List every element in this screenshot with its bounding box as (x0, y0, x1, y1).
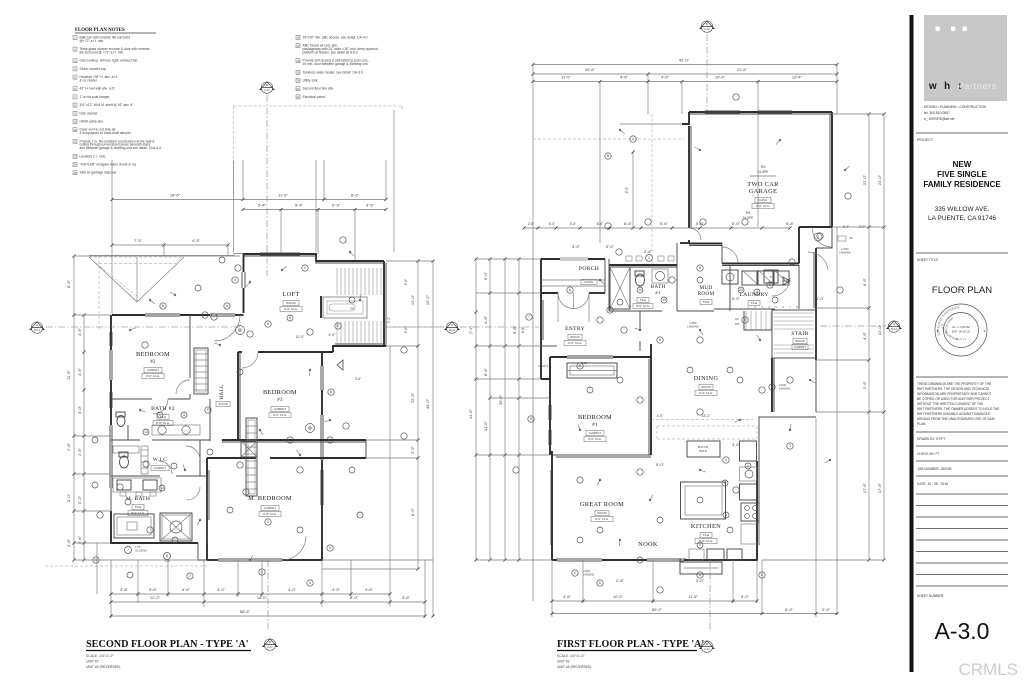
svg-text:7: 7 (189, 574, 191, 578)
svg-text:9'-0" CLG.: 9'-0" CLG. (588, 437, 602, 441)
garage top wall window bands (705, 111, 792, 113)
elevation marker A/W-12 left side (30, 322, 444, 333)
svg-text:(7'-4"): (7'-4") (469, 326, 473, 334)
garage door arc (689, 228, 828, 296)
svg-text:SCALE: 1/4"=1'-0": SCALE: 1/4"=1'-0" (557, 654, 585, 658)
svg-text:Second floor line abv.: Second floor line abv. (303, 87, 335, 91)
svg-text:4: 4 (747, 464, 749, 468)
svg-text:11'-6": 11'-6" (66, 369, 71, 379)
svg-text:BEDROOM: BEDROOM (263, 389, 297, 396)
first floor bottom extension lines (552, 227, 837, 632)
svg-text:WITHOUT THE WRITTEN CONSENT OF: WITHOUT THE WRITTEN CONSENT OF THE (917, 402, 983, 406)
svg-text:7: 7 (127, 548, 129, 552)
svg-text:SCALE: 1/4"=1'-0": SCALE: 1/4"=1'-0" (86, 654, 114, 658)
project label (917, 138, 933, 142)
svg-text:4'-0": 4'-0" (741, 594, 750, 599)
room label BATH1 (633, 284, 665, 309)
room label DINING (694, 375, 719, 396)
circled keynote markers second floor (93, 237, 519, 586)
extra circled markers first floor (577, 277, 778, 563)
svg-text:3/4" x12" W.M.M. shelf @ 62" a: 3/4" x12" W.M.M. shelf @ 62" abv. ff. (80, 103, 134, 107)
svg-text:8'-0" CLG.: 8'-0" CLG. (636, 304, 650, 308)
svg-text:5'-6": 5'-6" (149, 587, 158, 592)
svg-text:PORCH: PORCH (579, 266, 599, 272)
svg-text:4'-6": 4'-6" (77, 367, 82, 376)
bath1 shower (610, 267, 630, 309)
room label LAUNDRY (739, 292, 768, 306)
bedroom3 bottom wall (222, 440, 366, 442)
svg-text:8'-6": 8'-6" (862, 277, 867, 286)
svg-text:22'-0": 22'-0" (862, 174, 867, 185)
svg-text:5'-0": 5'-0" (606, 244, 615, 249)
svg-text:8'-6": 8'-6" (624, 221, 633, 226)
svg-text:4'-6": 4'-6" (77, 327, 82, 336)
svg-text:1" ø rod coat hanger.: 1" ø rod coat hanger. (80, 95, 111, 99)
svg-text:9'-5": 9'-5" (625, 186, 629, 194)
ceiling fan symbol bed3 (306, 424, 315, 433)
svg-text:A-12: A-12 (264, 89, 270, 92)
second floor bottom dimension row 2 (109, 595, 426, 604)
toilet bath2 (116, 412, 125, 427)
extra window bands second floor (110, 253, 323, 505)
svg-text:No. C 045180: No. C 045180 (952, 325, 970, 329)
toilet wic area (119, 452, 129, 468)
crmls watermark (958, 660, 1018, 679)
svg-text:8'-6": 8'-6" (597, 222, 603, 226)
svg-text:18'-6": 18'-6" (170, 193, 181, 198)
svg-text:44'-0": 44'-0" (425, 398, 430, 409)
roof outline above loft (dashed) (234, 106, 403, 252)
svg-text:335 WILLOW AVE.: 335 WILLOW AVE. (935, 206, 990, 213)
svg-text:2: 2 (267, 520, 269, 524)
svg-text:TILE: TILE (751, 301, 757, 305)
svg-text:CARPET: CARPET (589, 431, 601, 435)
second floor top dimension row 1 (110, 160, 387, 201)
room label GARAGE (747, 181, 779, 209)
svg-text:FAMILY RESIDENCE: FAMILY RESIDENCE (923, 180, 1001, 189)
svg-text:HDMI cable abv.: HDMI cable abv. (80, 120, 104, 124)
svg-text:CONC.: CONC. (758, 198, 768, 202)
svg-text:6'-0": 6'-0" (483, 271, 488, 280)
svg-text:11'-0": 11'-0" (561, 75, 571, 80)
svg-text:A: A (893, 322, 895, 326)
door arcs left plan (159, 315, 306, 560)
dining area walls (541, 311, 757, 439)
svg-text:4'-0": 4'-0" (217, 587, 226, 592)
svg-text:58'-6": 58'-6" (240, 609, 251, 614)
svg-text:4: 4 (234, 278, 236, 282)
svg-text:14: 14 (638, 288, 642, 292)
svg-text:CARPET: CARPET (274, 407, 286, 411)
svg-text:4"ø equipped w/ back-draft dam: 4"ø equipped w/ back-draft damper. (80, 131, 132, 135)
job number row (916, 467, 1008, 476)
garage left dashed line (533, 114, 684, 263)
svg-text:DRAWN BY: ET/FT: DRAWN BY: ET/FT (917, 437, 945, 441)
svg-text:UP: UP (735, 317, 739, 321)
svg-text:42" H. low wall abv. a.f.f.: 42" H. low wall abv. a.f.f. (80, 87, 116, 91)
svg-text:4: 4 (724, 481, 726, 485)
svg-text:★: ★ (936, 329, 939, 333)
bath1 mudroom laundry walls (609, 265, 799, 311)
svg-text:4'-6": 4'-6" (620, 75, 629, 80)
garage bottom wall and mudroom notch (689, 227, 832, 266)
svg-text:17'-6": 17'-6" (862, 482, 867, 493)
svg-text:LONG: LONG (689, 321, 696, 325)
svg-text:LONG: LONG (779, 383, 786, 387)
garage slope arrows (743, 165, 776, 220)
master bath tub (114, 514, 154, 538)
svg-text:10'-0": 10'-0" (613, 594, 624, 599)
engineer stamp (0, 0, 987, 356)
svg-text:"KHOLER" elongate water closet: "KHOLER" elongate water closet or eq. (80, 163, 137, 167)
bedroom3 top wall (238, 351, 333, 353)
logo subtext (924, 105, 987, 121)
svg-text:platform at firebox, see detai: platform at firebox, see detail @ A-8.0 (303, 51, 358, 55)
svg-text:W-12: W-12 (891, 328, 898, 331)
svg-text:UNIT #4 (REVERSED): UNIT #4 (REVERSED) (86, 665, 120, 669)
svg-text:9: 9 (699, 543, 701, 547)
svg-text:6'-8": 6'-8" (521, 327, 525, 333)
svg-text:UNIT #4 (REVERSED): UNIT #4 (REVERSED) (557, 665, 591, 669)
svg-text:6: 6 (530, 417, 532, 421)
svg-text:3'-0": 3'-0" (572, 244, 581, 249)
svg-text:1: 1 (648, 256, 650, 260)
svg-text:WHT PARTNERS. THE DESIGN AND T: WHT PARTNERS. THE DESIGN AND TECHNICAL (917, 387, 990, 391)
svg-text:and between garage & dwelling: and between garage & dwelling unit see d… (80, 146, 162, 150)
svg-text:ARISING FROM THE UNAUTHORIZED: ARISING FROM THE UNAUTHORIZED USE OF SAI… (917, 417, 996, 421)
second floor right dimension columns (322, 259, 435, 617)
svg-text:BE COPIED OR USED FOR ANOTHER: BE COPIED OR USED FOR ANOTHER PROJECT (917, 397, 989, 401)
room label BATH2 (151, 406, 175, 426)
svg-text:3'-0": 3'-0" (77, 405, 82, 414)
svg-text:5: 5 (329, 546, 331, 550)
svg-text:17'-6": 17'-6" (877, 482, 882, 493)
room label STAIR (791, 331, 808, 350)
svg-text:A: A (36, 323, 38, 327)
svg-text:50'-0": 50'-0" (652, 607, 663, 612)
nook bay window seat (680, 562, 722, 574)
svg-text:5'-4": 5'-4" (258, 203, 267, 208)
drawn by row (916, 437, 1008, 446)
first floor right dimension columns (762, 112, 886, 561)
date row (917, 482, 948, 486)
first floor bottom wall (552, 545, 757, 561)
dining east wall (772, 358, 774, 412)
svg-text:9'-0" CLG.: 9'-0" CLG. (146, 374, 160, 378)
svg-text:4'-0": 4'-0" (332, 587, 341, 592)
svg-text:EXP. 06-30-20: EXP. 06-30-20 (952, 330, 971, 334)
floor plan notes column 2 (296, 36, 378, 100)
svg-text:8'-0": 8'-0" (785, 607, 794, 612)
svg-text:C I V I L: C I V I L (956, 337, 967, 341)
sheet number (935, 618, 990, 644)
svg-text:TILE: TILE (640, 298, 646, 302)
svg-text:2'-6": 2'-6" (77, 447, 82, 456)
svg-text:8'-0" CLG.: 8'-0" CLG. (131, 511, 145, 515)
kitchen counters (681, 441, 760, 560)
svg-text:TILE: TILE (703, 533, 709, 537)
sink bath1 (652, 269, 668, 283)
room label HALL (216, 384, 230, 406)
room label MUDROOM (698, 285, 715, 305)
svg-text:ENTRY: ENTRY (565, 326, 585, 332)
svg-text:LA PUENTE, CA 91746: LA PUENTE, CA 91746 (928, 215, 996, 222)
section marker top of first floor plan (700, 21, 714, 114)
project name (923, 160, 1001, 189)
svg-text:COAT'S: COAT'S (538, 364, 548, 368)
svg-text:W-12: W-12 (449, 329, 456, 332)
svg-text:2'-0": 2'-0" (822, 607, 831, 612)
svg-text:WHT PARTNERS. THE OWNER AGREES: WHT PARTNERS. THE OWNER AGREES TO HOLD T… (917, 407, 999, 411)
svg-text:5'-0": 5'-0" (77, 495, 82, 504)
closet bed1 (538, 361, 617, 378)
svg-text:2'-6": 2'-6" (66, 442, 71, 451)
svg-text:LOFT: LOFT (282, 291, 299, 298)
svg-text:PROJECT:: PROJECT: (917, 138, 933, 142)
svg-text:6'-0": 6'-0" (549, 222, 555, 226)
elevation marker A right of second floor (390, 322, 539, 333)
sheet title label (917, 258, 939, 262)
svg-text:LANDING: LANDING (583, 573, 595, 577)
svg-text:5%: 5% (761, 165, 766, 169)
svg-text:3'-0": 3'-0" (816, 296, 825, 301)
svg-text:8'-0": 8'-0" (410, 507, 415, 516)
svg-text:5'-6": 5'-6" (732, 221, 741, 226)
second floor top dimension row 3 (110, 199, 229, 314)
svg-text:4'-6": 4'-6" (365, 587, 374, 592)
ceiling fan symbol bed2 (236, 326, 245, 335)
room label BEDROOM 2 (136, 351, 170, 379)
svg-text:2: 2 (304, 266, 306, 270)
svg-text:FLOOR PLAN: FLOOR PLAN (932, 285, 992, 296)
wht partners logo box (924, 15, 1007, 101)
svg-text:& no cluster: & no cluster (80, 79, 98, 83)
svg-text:13: 13 (662, 298, 666, 302)
svg-text:F: F (609, 308, 611, 312)
svg-text:5'-3": 5'-3" (332, 203, 341, 208)
circled keynote markers first floor (211, 94, 851, 593)
svg-text:8'-6": 8'-6" (351, 193, 360, 198)
svg-text:GARAGE: GARAGE (749, 188, 777, 195)
svg-text:2'-6": 2'-6" (644, 249, 653, 254)
second floor bottom dimension row 1 (109, 587, 391, 596)
svg-text:TILE: TILE (703, 300, 709, 304)
svg-text:Stone counter top.: Stone counter top. (80, 67, 107, 71)
svg-text:4'-6": 4'-6" (563, 594, 572, 599)
svg-text:BEDROOM: BEDROOM (578, 414, 612, 421)
svg-text:F: F (207, 408, 209, 412)
svg-text:SHEET TITLE:: SHEET TITLE: (917, 258, 939, 262)
room label BEDROOM1 (578, 414, 612, 442)
svg-text:8'-6": 8'-6" (483, 367, 488, 376)
svg-text:6'-8": 6'-8" (512, 325, 517, 334)
svg-text:WOOD: WOOD (597, 511, 607, 515)
svg-text:Tankless water heater, see det: Tankless water heater, see detail: 1/A-3… (303, 70, 364, 74)
first floor interior dimension texts (521, 186, 825, 583)
svg-text:Partners: Partners (958, 81, 998, 91)
svg-text:DN: DN (350, 307, 354, 311)
svg-text:4'-8": 4'-8" (483, 315, 488, 324)
svg-text:11'-6": 11'-6" (688, 594, 698, 599)
svg-text:TWO CAR: TWO CAR (747, 181, 779, 188)
svg-text:WOOD: WOOD (286, 301, 296, 305)
mbath counter sinks (113, 478, 161, 496)
svg-text:3'-6": 3'-6" (120, 587, 129, 592)
section marker B/A-12 top of second floor plan (260, 82, 274, 276)
svg-text:7: 7 (528, 315, 530, 319)
sheet number label (917, 594, 944, 598)
svg-text:GREAT ROOM: GREAT ROOM (580, 501, 624, 508)
svg-text:13'-2": 13'-2" (702, 414, 711, 418)
svg-text:TUB: TUB (164, 559, 169, 563)
svg-text:11'-6": 11'-6" (468, 408, 473, 418)
svg-text:6: 6 (309, 581, 311, 585)
svg-text:5: 5 (162, 304, 164, 308)
svg-text:Utility sink.: Utility sink. (303, 79, 319, 83)
svg-text:WHT PARTNERS UNLIABLE AGAINST: WHT PARTNERS UNLIABLE AGAINST DAMAGES (917, 412, 990, 416)
second floor bottom extension lines (111, 346, 425, 630)
svg-text:A-3.0: A-3.0 (935, 618, 990, 644)
svg-text:NOOK: NOOK (638, 541, 658, 548)
first floor right exterior wall (814, 227, 832, 412)
svg-text:2'-6": 2'-6" (410, 445, 415, 454)
svg-text:5: 5 (329, 438, 331, 442)
kitchen right wall (757, 417, 816, 545)
svg-text:NEW: NEW (953, 160, 972, 169)
laundry counter sink (722, 270, 778, 284)
svg-text:2'-8": 2'-8" (528, 222, 534, 226)
svg-text:5'-4": 5'-4" (295, 203, 304, 208)
svg-text:SECOND FLOOR PLAN - TYPE 'A': SECOND FLOOR PLAN - TYPE 'A' (86, 639, 249, 650)
closet between bedroom2 and hall (194, 348, 208, 394)
svg-text:A-12: A-12 (267, 646, 273, 649)
svg-text:8'-0" CLG.: 8'-0" CLG. (156, 421, 170, 425)
svg-text:e_ WhT0RS@att.net: e_ WhT0RS@att.net (924, 117, 955, 121)
svg-text:3'-0": 3'-0" (66, 493, 71, 502)
svg-text:5'-6": 5'-6" (570, 222, 576, 226)
svg-text:3'-6": 3'-6" (732, 442, 741, 447)
svg-text:FIVE SINGLE: FIVE SINGLE (937, 170, 987, 179)
extra circled markers second floor (92, 257, 363, 578)
master bedroom bottom wall (207, 522, 322, 561)
section marker below second floor title (263, 639, 277, 650)
svg-text:CONC.: CONC. (584, 280, 594, 284)
svg-text:tel. 300-510-0857: tel. 300-510-0857 (924, 111, 950, 115)
svg-text:A-12: A-12 (704, 648, 710, 651)
svg-text:4'-6": 4'-6" (66, 538, 71, 547)
floor plan notes title (75, 28, 156, 33)
right wall of bedroom column (321, 352, 331, 522)
svg-text:4'-0": 4'-0" (328, 333, 336, 337)
room label BEDROOM 3 (263, 389, 297, 418)
svg-text:5'-0": 5'-0" (404, 279, 408, 285)
svg-text:CHECK BY: FT: CHECK BY: FT (917, 452, 940, 456)
svg-text:2'-6": 2'-6" (862, 380, 867, 389)
svg-text:2'-6": 2'-6" (616, 578, 625, 583)
small dims near stairs (295, 279, 408, 381)
title block separator 3 (916, 376, 1008, 378)
svg-text:★: ★ (983, 329, 986, 333)
loft exterior wall right (384, 261, 386, 346)
svg-text:4: 4 (226, 304, 228, 308)
svg-text:B: B (266, 83, 268, 87)
stair first floor (687, 277, 816, 358)
svg-text:9'-0" CLG.: 9'-0" CLG. (273, 413, 287, 417)
svg-text:#2: #2 (150, 360, 156, 365)
svg-text:WOOD: WOOD (795, 339, 805, 343)
svg-text:4: 4 (183, 413, 185, 417)
svg-text:3'-2": 3'-2" (387, 317, 391, 323)
svg-text:4: 4 (725, 458, 727, 462)
section marker below first floor title (700, 641, 714, 652)
svg-text:CARPET: CARPET (264, 506, 276, 510)
loft bottom right corner wall (333, 344, 386, 352)
svg-text:30'-8": 30'-8" (498, 394, 503, 405)
svg-text:22'-0": 22'-0" (877, 174, 882, 185)
tankless water heater closet (812, 225, 865, 255)
svg-text:CARPET: CARPET (154, 466, 166, 470)
svg-text:Electrical panel.: Electrical panel. (303, 95, 326, 99)
svg-text:BATH #2: BATH #2 (151, 406, 175, 412)
svg-text:BEDROOM: BEDROOM (136, 351, 170, 358)
room label MBEDROOM (248, 495, 292, 517)
loft stair rail (321, 296, 367, 370)
svg-text:12'-2": 12'-2" (425, 294, 430, 305)
svg-text:5'-0": 5'-0" (656, 462, 665, 467)
title block separator 2 (916, 252, 1008, 254)
svg-text:WOOD: WOOD (218, 402, 228, 406)
svg-text:5'-6": 5'-6" (786, 221, 795, 226)
svg-text:REF'R: REF'R (699, 449, 707, 453)
svg-text:9'-0" CLG.: 9'-0" CLG. (284, 307, 298, 311)
svg-text:PLAN.: PLAN. (917, 422, 926, 426)
svg-text:12'-0": 12'-0" (410, 392, 415, 403)
svg-text:6: 6 (289, 316, 291, 320)
svg-text:5'-6": 5'-6" (660, 221, 669, 226)
svg-text:LONG: LONG (841, 247, 848, 251)
svg-text:#1: #1 (655, 290, 661, 295)
svg-text:DESIGN • PLANNING • CONSTRUCTI: DESIGN • PLANNING • CONSTRUCTION (924, 105, 987, 109)
long landing tag great room (572, 569, 595, 577)
svg-text:10'-4": 10'-4" (715, 75, 726, 80)
svg-text:STAIR: STAIR (791, 331, 808, 337)
svg-text:INFORMATION ARE PROPRIETARY AN: INFORMATION ARE PROPRIETARY AND CANNOT (917, 392, 992, 396)
svg-text:LANDING: LANDING (779, 387, 791, 391)
svg-text:9'-0" CLG.: 9'-0" CLG. (595, 517, 609, 521)
svg-text:11'-0": 11'-0" (483, 420, 488, 430)
svg-text:THESE DRAWINGS ARE THE PROPERT: THESE DRAWINGS ARE THE PROPERTY OF THE (917, 382, 991, 386)
svg-text:FIRST FLOOR PLAN - TYPE 'A': FIRST FLOOR PLAN - TYPE 'A' (557, 639, 704, 650)
svg-text:8'-6": 8'-6" (66, 279, 71, 288)
loft stair treads (337, 268, 381, 344)
bedroom2 top exterior wall (112, 314, 244, 316)
leader marks first floor (578, 129, 850, 561)
second floor plan title (86, 639, 251, 669)
room label PORCH (541, 266, 605, 286)
svg-text:LONG: LONG (583, 569, 590, 573)
left exterior wall lower first floor (549, 357, 552, 560)
svg-text:3: 3 (789, 444, 791, 448)
svg-text:#3: #3 (277, 398, 283, 403)
svg-text:20'-6": 20'-6" (585, 67, 596, 72)
copyright paragraph (917, 382, 999, 426)
svg-text:3'-6": 3'-6" (355, 377, 361, 381)
toilet bath1 (635, 271, 645, 286)
closet strip wall above master bedroom (207, 440, 366, 458)
svg-text:20 min. door between garage &: 20 min. door between garage & dwelling u… (303, 62, 369, 66)
svg-text:M. BEDROOM: M. BEDROOM (248, 495, 292, 502)
svg-text:3: 3 (725, 513, 727, 517)
